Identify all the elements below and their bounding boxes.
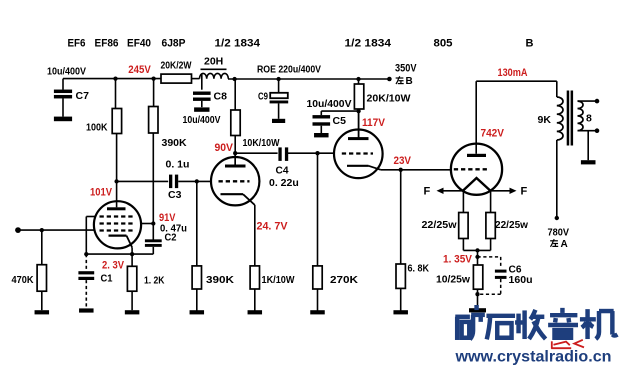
label 805 [434,38,453,50]
resistor 22/25w right [486,191,529,251]
svg-text:C4: C4 [276,165,289,177]
resistor 20K/10W [354,79,410,139]
tube V3 triode envelope [334,130,383,179]
svg-text:EF86: EF86 [95,38,119,50]
wire B+ rail right segment [228,78,390,80]
wire secondary ground tap [587,131,589,161]
ground below 270K [310,310,325,314]
svg-text:780V: 780V [548,227,570,239]
tube V1 pentode envelope [94,201,141,248]
watermark red seal [551,340,584,349]
terminal output bottom [595,128,600,133]
label 245V rail voltage [128,64,151,76]
tube V2 grid (dashed) [219,180,250,182]
svg-text:101V: 101V [90,187,113,199]
label 90V plate voltage [215,142,234,154]
svg-text:10/25w: 10/25w [436,274,471,286]
node junction plate3/C5 tap [356,109,360,113]
svg-text:C9: C9 [258,91,268,103]
node junction rail/20K10W [356,77,360,81]
tube V2 anode [225,153,246,167]
wire filament resistors join [463,250,490,265]
node junction 6.8K tap [399,168,403,172]
transformer T1 core [567,91,573,146]
wire C4 to V3 grid [288,152,335,154]
svg-text:470K: 470K [12,274,34,286]
resistor 390K grid leak [192,181,234,311]
svg-text:22/25w: 22/25w [422,219,458,231]
node junction rail/C9 [276,77,280,81]
wire V3 cathode to V4 grid 23V [381,169,451,171]
node junction rail/1.2K cathode [130,252,134,256]
wire secondary top to terminal [578,100,598,102]
tube V1 anode [107,181,126,210]
terminal input [15,227,21,233]
svg-text:B: B [526,38,534,50]
capacitor C6 160u (dashed option) [478,257,533,294]
label 130mA [498,67,528,79]
terminal 350V to B supply [387,63,417,88]
svg-text:B: B [406,76,413,87]
transformer T1 secondary 8ohm [578,101,593,131]
svg-text:8: 8 [586,113,592,125]
svg-text:EF40: EF40 [127,38,151,50]
wire input to V1 grid [18,229,95,231]
ground secondary [581,160,596,164]
wire V1 suppressor to cathode rail [86,217,95,255]
svg-text:270K: 270K [330,274,358,286]
label 91V screen voltage [159,212,176,224]
tube V3 anode [348,111,369,140]
svg-text:1. 35V: 1. 35V [443,254,473,266]
terminal 780V to A supply [548,216,570,250]
capacitor C3 0.1u [166,159,190,202]
wire V1 cathode bottom rail [86,253,153,255]
capacitor C9 ROE 220u/400V [258,79,288,119]
svg-text:1/2 1834: 1/2 1834 [345,38,392,50]
svg-text:10u/400V: 10u/400V [183,114,221,126]
node junction input/470K [40,228,44,232]
label ROE 220u/400V [257,64,321,76]
svg-text:ROE 220u/400V: ROE 220u/400V [257,64,321,76]
svg-text:350V: 350V [395,63,417,75]
label B [526,38,534,50]
resistor 100K [86,79,122,182]
svg-text:22/25w: 22/25w [495,219,529,231]
label 1/2 1834 (stage 3) [345,38,392,50]
tube V1 cathode [109,236,133,248]
svg-text:6J8P: 6J8P [162,38,186,50]
label 1.35V [443,254,473,266]
wire primary bottom to 780V [556,140,558,218]
wire plate2 to C4 [235,152,277,154]
resistor 10/25w [436,265,483,308]
ground below 1K/10W [248,310,262,314]
wire secondary bottom to terminal [578,130,598,132]
ground below 470K [35,310,50,314]
watermark crystalradio.cn [454,349,611,366]
capacitor C5 10u/400V [307,98,359,133]
ground below C8 [194,107,209,111]
svg-text:1. 2K: 1. 2K [144,275,165,287]
svg-text:245V: 245V [128,64,151,76]
node junction screen 91V [151,221,155,225]
tube V4 filament [463,178,490,191]
svg-text:C7: C7 [76,90,90,102]
wire V1 screen to 390K/C2 [141,133,154,240]
svg-text:0. 22u: 0. 22u [269,177,299,189]
svg-text:24. 7V: 24. 7V [257,221,289,233]
svg-text:9K: 9K [538,114,552,126]
ground below C9 [272,119,285,123]
ground below C7 [54,117,72,122]
svg-text:C1: C1 [101,273,113,285]
svg-text:10u/400V: 10u/400V [307,98,352,110]
ground below 1.2K [125,310,140,314]
capacitor C2 0.47u [145,223,187,255]
svg-text:10u/400V: 10u/400V [47,66,86,78]
svg-text:C2: C2 [165,232,177,244]
node junction grid3/270K [315,151,319,155]
ground below C5 [314,133,329,137]
svg-text:EF6: EF6 [68,38,86,50]
label 101V plate voltage [90,187,113,199]
resistor 22/25w left [422,191,469,251]
resistor 390K screen dropper [149,79,187,149]
node junction rail/100K [113,76,117,80]
tube V4 grid (dashed) [454,168,488,170]
svg-text:130mA: 130mA [498,67,528,79]
node junction rail/C1 [84,252,88,256]
tube V4 805 envelope [451,144,502,195]
wire plate1 to C3 [117,180,169,182]
label 23V [394,155,412,167]
wire cathode lead [131,247,133,254]
svg-text:390K: 390K [206,274,234,286]
wire B+ rail middle segment [192,78,200,80]
terminal output top [595,99,600,104]
label tube lineup EF6 EF86 EF40 6J8P [68,38,186,50]
resistor 470K [12,230,47,310]
svg-text:A: A [561,239,568,250]
ground below 6.8K [393,310,408,314]
svg-text:90V: 90V [215,142,234,154]
node junction grid2/390K [195,179,199,183]
label 117V plate voltage [362,117,386,129]
label 2.3V cathode voltage [102,260,125,272]
label 24.7V cathode voltage [257,221,289,233]
svg-text:117V: 117V [362,117,386,129]
tube V3 grid (dashed) [342,152,373,154]
svg-text:805: 805 [434,38,453,50]
svg-text:100K: 100K [86,122,108,134]
node junction filament center [475,248,479,252]
wire V4 plate to transformer 130mA [476,81,557,97]
svg-text:2. 3V: 2. 3V [102,260,125,272]
label 742V plate voltage [481,128,505,140]
arrow filament left F [424,186,464,198]
capacitor C1 (dashed option) [78,254,112,308]
svg-text:20K/10W: 20K/10W [367,93,411,105]
resistor 1.2K [127,254,164,310]
svg-text:160u: 160u [509,274,533,286]
resistor 270K [313,153,359,311]
wire B+ rail left segment [63,78,161,80]
svg-text:1/2 1834: 1/2 1834 [215,38,261,50]
arrow filament right F [490,186,528,198]
svg-text:0. 1u: 0. 1u [166,159,190,171]
svg-text:20K/2W: 20K/2W [161,60,192,72]
node junction rail/10K10W (after choke) [232,77,236,81]
tube V2 cathode [221,194,255,205]
ground below 10/25w [469,308,486,312]
svg-text:1K/10W: 1K/10W [262,274,295,286]
resistor 10K/10W [231,79,280,166]
tube V1 grids (dashed) [100,217,136,231]
capacitor C7 10u/400V [47,66,89,117]
ground below C1 [79,308,94,312]
svg-text:C5: C5 [333,115,347,127]
capacitor C4 0.22u [269,147,299,189]
tube V2 triode envelope [211,157,259,205]
svg-text:742V: 742V [481,128,505,140]
svg-text:23V: 23V [394,155,412,167]
svg-text:C3: C3 [168,189,182,201]
transformer T1 primary 9K [538,97,564,140]
ground below 390K [190,310,205,314]
wire C3 to V2 grid [178,180,211,182]
svg-text:C8: C8 [214,91,228,103]
inductor 20H choke [200,56,229,79]
node junction C6 return [475,292,479,296]
tube V4 anode [467,81,486,157]
svg-text:F: F [424,186,431,198]
watermark logo text (kuang shi shou yin ji) [455,305,617,340]
node junction C6 tap [475,255,479,259]
svg-text:www.crystalradio.cn: www.crystalradio.cn [454,349,611,366]
svg-text:20H: 20H [204,56,223,68]
node junction rail/390K [151,76,155,80]
tube V3 cathode [347,166,381,170]
node junction plate2/C4 [233,151,237,155]
svg-text:F: F [521,186,528,198]
svg-text:390K: 390K [162,137,188,149]
capacitor C8 10u/400V [183,75,228,127]
label 1/2 1834 (stage 1-2) [215,38,261,50]
svg-text:6. 8K: 6. 8K [408,263,430,275]
resistor 6.8K [396,170,429,311]
resistor 1K/10W [250,205,294,311]
svg-text:10K/10W: 10K/10W [243,137,280,149]
resistor 20K/2W [161,60,192,84]
node junction plate1/C3 [114,179,118,183]
